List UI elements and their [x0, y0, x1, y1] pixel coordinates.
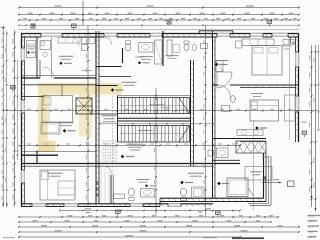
- section marker 21a bottom: [216, 211, 221, 214]
- label krevet: [59, 122, 74, 123]
- kitchen counter: [82, 38, 96, 44]
- label spavaca1 top-left: [59, 56, 73, 57]
- label narrow room top-left: [27, 45, 35, 48]
- right section vanity counter: [237, 130, 263, 136]
- lower wc toilet: [181, 188, 187, 196]
- label kupaonica top: [135, 57, 145, 58]
- label closet room right: [283, 45, 292, 48]
- wc2 washbasin: [201, 44, 208, 49]
- lower bath washbasin: [141, 189, 155, 198]
- dim chain right x318.5: [318, 45, 320, 130]
- label kuhinja: [82, 70, 92, 71]
- wall: closet divider x51: [51, 37, 53, 78]
- door arc in y78 wall: [43, 67, 54, 78]
- dim chain right x311.5: [311, 45, 313, 207]
- inner dim chain y110.6: [2, 110, 318, 112]
- wall: stub x37 lower: [36, 151, 38, 164]
- bottom-left corner tiny text: [3, 237, 15, 238]
- label cetvorosobni bath: [137, 178, 150, 181]
- wall hatch: bottom band: [23, 204, 25, 206]
- lower-right dim arrow detail: [262, 182, 281, 184]
- lower wc shower: [192, 187, 205, 198]
- label bath mid-right + diamond: [216, 60, 229, 61]
- wall: right outer: [298, 34, 300, 143]
- inner dim chain x253.5: [253, 120, 255, 210]
- top right corner step: [290, 37, 292, 43]
- wall: bottom (left+mid): [21, 203, 213, 205]
- windows in left wall: [21, 48, 25, 61]
- rotated numbers far-left: [1, 38, 4, 42]
- wall: bottom step mid-right: [159, 198, 161, 206]
- dim chain right x315.5: [315, 45, 317, 211]
- section marker 21a left: [11, 86, 16, 89]
- top small square B: [31, 24, 35, 28]
- X bracing central wall lower: [96, 180, 99, 186]
- wall: top outer: [21, 33, 299, 35]
- logo diamond closet area: [217, 182, 221, 186]
- dim numbers top rows: [55, 5, 62, 6]
- wall: closet wall x37 top: [36, 37, 38, 78]
- small bed top-left: [40, 41, 51, 50]
- wall hatch: left band: [22, 39, 25, 41]
- wall: thin line y85 left: [21, 84, 96, 86]
- dim numbers inner y145: [27, 144, 31, 145]
- staircase lower flight: [118, 126, 190, 143]
- legend text block: [308, 215, 320, 216]
- spavaca dresser: [41, 123, 60, 135]
- label cetverosobni: [188, 173, 204, 174]
- closet top-left room: [27, 41, 36, 58]
- dim chain far-left x3.2: [2, 26, 4, 207]
- wall hatch: right band: [296, 39, 299, 41]
- lower-left room bed: [40, 170, 75, 200]
- dim numbers bottom rows: [68, 215, 73, 216]
- dim chain bottom y227: [19, 226, 299, 228]
- small table circle: [43, 52, 47, 56]
- dim chain bottom y232: [19, 231, 299, 233]
- big bedroom bed: [252, 46, 282, 76]
- logo diamond krevet: [63, 129, 67, 133]
- living sofa: [167, 40, 172, 56]
- right room bed: [250, 100, 279, 121]
- rotated numbers x88 chain: [85, 40, 88, 44]
- dashed line corridor x112.5: [112, 96, 114, 164]
- wall: right section bottom y138.5-141.5: [213, 138, 267, 140]
- inner dim chain x205.5: [205, 25, 207, 217]
- lower-left room closet: [58, 181, 75, 195]
- staircase upper flight: [118, 98, 190, 114]
- door arc bath right: [218, 85, 231, 98]
- rotated numbers left chain: [13, 39, 14, 44]
- label ulazni prostor: [122, 82, 137, 83]
- rotated numbers right chain: [309, 56, 310, 61]
- windows in top wall: [41, 33, 62, 38]
- mid-right bath tub curved: [217, 72, 232, 88]
- top section line x83: [82, 1, 84, 25]
- wall: y151.5 thin left: [21, 151, 96, 153]
- wall: central vertical spine: [95, 31, 97, 204]
- section marker 21a right: [302, 131, 307, 134]
- wall: y76.5 corridor: [99, 76, 131, 78]
- wall: x122.5 top bath: [122, 48, 124, 63]
- dim chain top row4: [19, 24, 299, 26]
- dim chain bottom y222: [19, 221, 271, 223]
- logo diamond trosobni: [121, 155, 125, 159]
- watermark logo: left vertical strip: [38, 95, 48, 153]
- wall: top bay step: [199, 30, 233, 32]
- rotated numbers x156 chain: [153, 102, 156, 106]
- lower right closet room: [227, 178, 248, 197]
- spavaca bed: [42, 96, 73, 123]
- top right small shelf: [283, 40, 294, 45]
- mid-right bath shower: [216, 61, 223, 72]
- bath1 label: [139, 55, 153, 58]
- scale bar text bottom: [232, 237, 264, 239]
- label trosobni stan: [127, 144, 144, 145]
- big bedroom wardrobe row: [242, 39, 274, 46]
- stair flight label upper: [150, 103, 165, 106]
- wall: main divider y163.5: [21, 163, 240, 165]
- door arc entry left: [70, 37, 79, 46]
- dim chain bottom y217: [19, 216, 278, 218]
- windows in right wall: [295, 52, 299, 67]
- wall: y66.5 bath bottom: [96, 66, 122, 68]
- label spavaca soba (corridor): [102, 115, 117, 116]
- wall: y160.3 right of center: [213, 159, 240, 161]
- dim chain left x14.5: [14, 30, 16, 206]
- logo diamond right room: [255, 126, 259, 130]
- dim chain top row3: [19, 19, 299, 21]
- wall: right section divider y85-87.5: [213, 84, 219, 86]
- mid-right washbasin: [222, 106, 230, 112]
- dim chain far-left x6.8: [6, 31, 8, 207]
- rotated numbers x205 chain: [203, 40, 206, 44]
- section marker 21a top-left: [72, 24, 77, 27]
- wall: right inner: [295, 37, 297, 142]
- right room wardrobe: [285, 95, 296, 121]
- staircase landing walls: [118, 117, 191, 119]
- wall: y155.3 thick short: [21, 154, 58, 156]
- inner dim chain x289.5: [289, 37, 291, 140]
- dim numbers inner y110: [27, 109, 31, 110]
- dim chain top row1: [19, 7, 299, 9]
- watermark logo: second vertical strip: [79, 95, 92, 137]
- section marker 21a top-right: [267, 20, 272, 23]
- wall: left inner: [24, 37, 26, 204]
- wc2 bidet: [192, 44, 197, 50]
- wall: left outer: [21, 34, 23, 207]
- inner dim chain x156: [155, 88, 157, 215]
- bath1 shower column: [155, 40, 163, 64]
- dim chain top row2: [19, 14, 299, 16]
- dim chain bottom y237: [19, 236, 240, 238]
- mid-right toilet: [231, 96, 236, 103]
- corridor wall y114: [92, 113, 118, 115]
- watermark logo: lower-left blob: [38, 141, 56, 152]
- wall hatch: central spine: [96, 34, 99, 37]
- inner dim chain y123.8: [100, 123, 213, 125]
- dim line y29.8 thin: [19, 29, 299, 31]
- section marker 21a bottom2: [116, 210, 121, 213]
- lower bath toilet: [129, 188, 135, 196]
- wc2 toilet: [184, 44, 189, 51]
- wall: crosshatched parapet band: [236, 141, 266, 153]
- wall: x212.5-215 spine right: [212, 31, 214, 198]
- right chain arrowheads: [311, 196, 313, 199]
- wall x111-113 lower bath: [110, 175, 112, 204]
- wall: x164.5 hatched top: [162, 31, 164, 66]
- stair flight label lower: [138, 129, 153, 132]
- hall tiles grid lower: [100, 166, 102, 204]
- wall: x190.5-193.5 right of stairs: [190, 60, 192, 166]
- lower right room rect: [245, 167, 272, 181]
- tiles grid small bath: [102, 140, 104, 164]
- shaft box with X bracing: [76, 98, 92, 114]
- door arc lower hall: [104, 166, 112, 174]
- bath1 vanity: [139, 43, 154, 53]
- wall: lower right vertical bundle: [263, 153, 265, 198]
- label soba right top: [251, 93, 263, 94]
- label soba lower right: [251, 171, 262, 172]
- inner dim chain x88: [87, 25, 89, 206]
- wall: left room divider y96.5: [21, 96, 44, 98]
- inner dim chain y145.3: [18, 144, 240, 146]
- top-left margin text: [1, 27, 6, 28]
- top small square C: [167, 20, 171, 24]
- windows in bottom wall: [32, 203, 46, 207]
- lower bath bench: [114, 194, 125, 199]
- wall hatch: top band: [23, 34, 26, 37]
- wall: corridor thin y95.5 over stairs: [118, 95, 191, 97]
- wall: left horizontal divider y78: [21, 77, 40, 79]
- stair left stringer wall: [117, 96, 119, 143]
- label 1.25 right: [262, 157, 268, 158]
- lower-right small window rect: [288, 181, 295, 187]
- dim chain bottom y210.5: [60, 210, 240, 212]
- logo diamond ulazni: [111, 88, 114, 91]
- wall: top inner: [21, 36, 299, 38]
- label 3-sobni lower left: [48, 173, 63, 174]
- bottom mid tiny labels: [85, 208, 91, 209]
- big bedroom nightstand: [236, 41, 243, 48]
- bath1 toilet: [125, 44, 130, 51]
- hall door arc center: [104, 37, 112, 45]
- lower washbasin right section: [216, 148, 228, 158]
- wall: corridor top y85.5 center: [96, 85, 118, 87]
- kitchen counter long: [58, 38, 80, 44]
- dim chain left x17.5: [17, 60, 19, 160]
- logo diamond cetverosobni: [180, 181, 184, 185]
- watermark logo: horizontal tan band: [38, 83, 122, 95]
- parapet lines bottom right: [248, 203, 269, 205]
- label dnevni: [166, 55, 179, 56]
